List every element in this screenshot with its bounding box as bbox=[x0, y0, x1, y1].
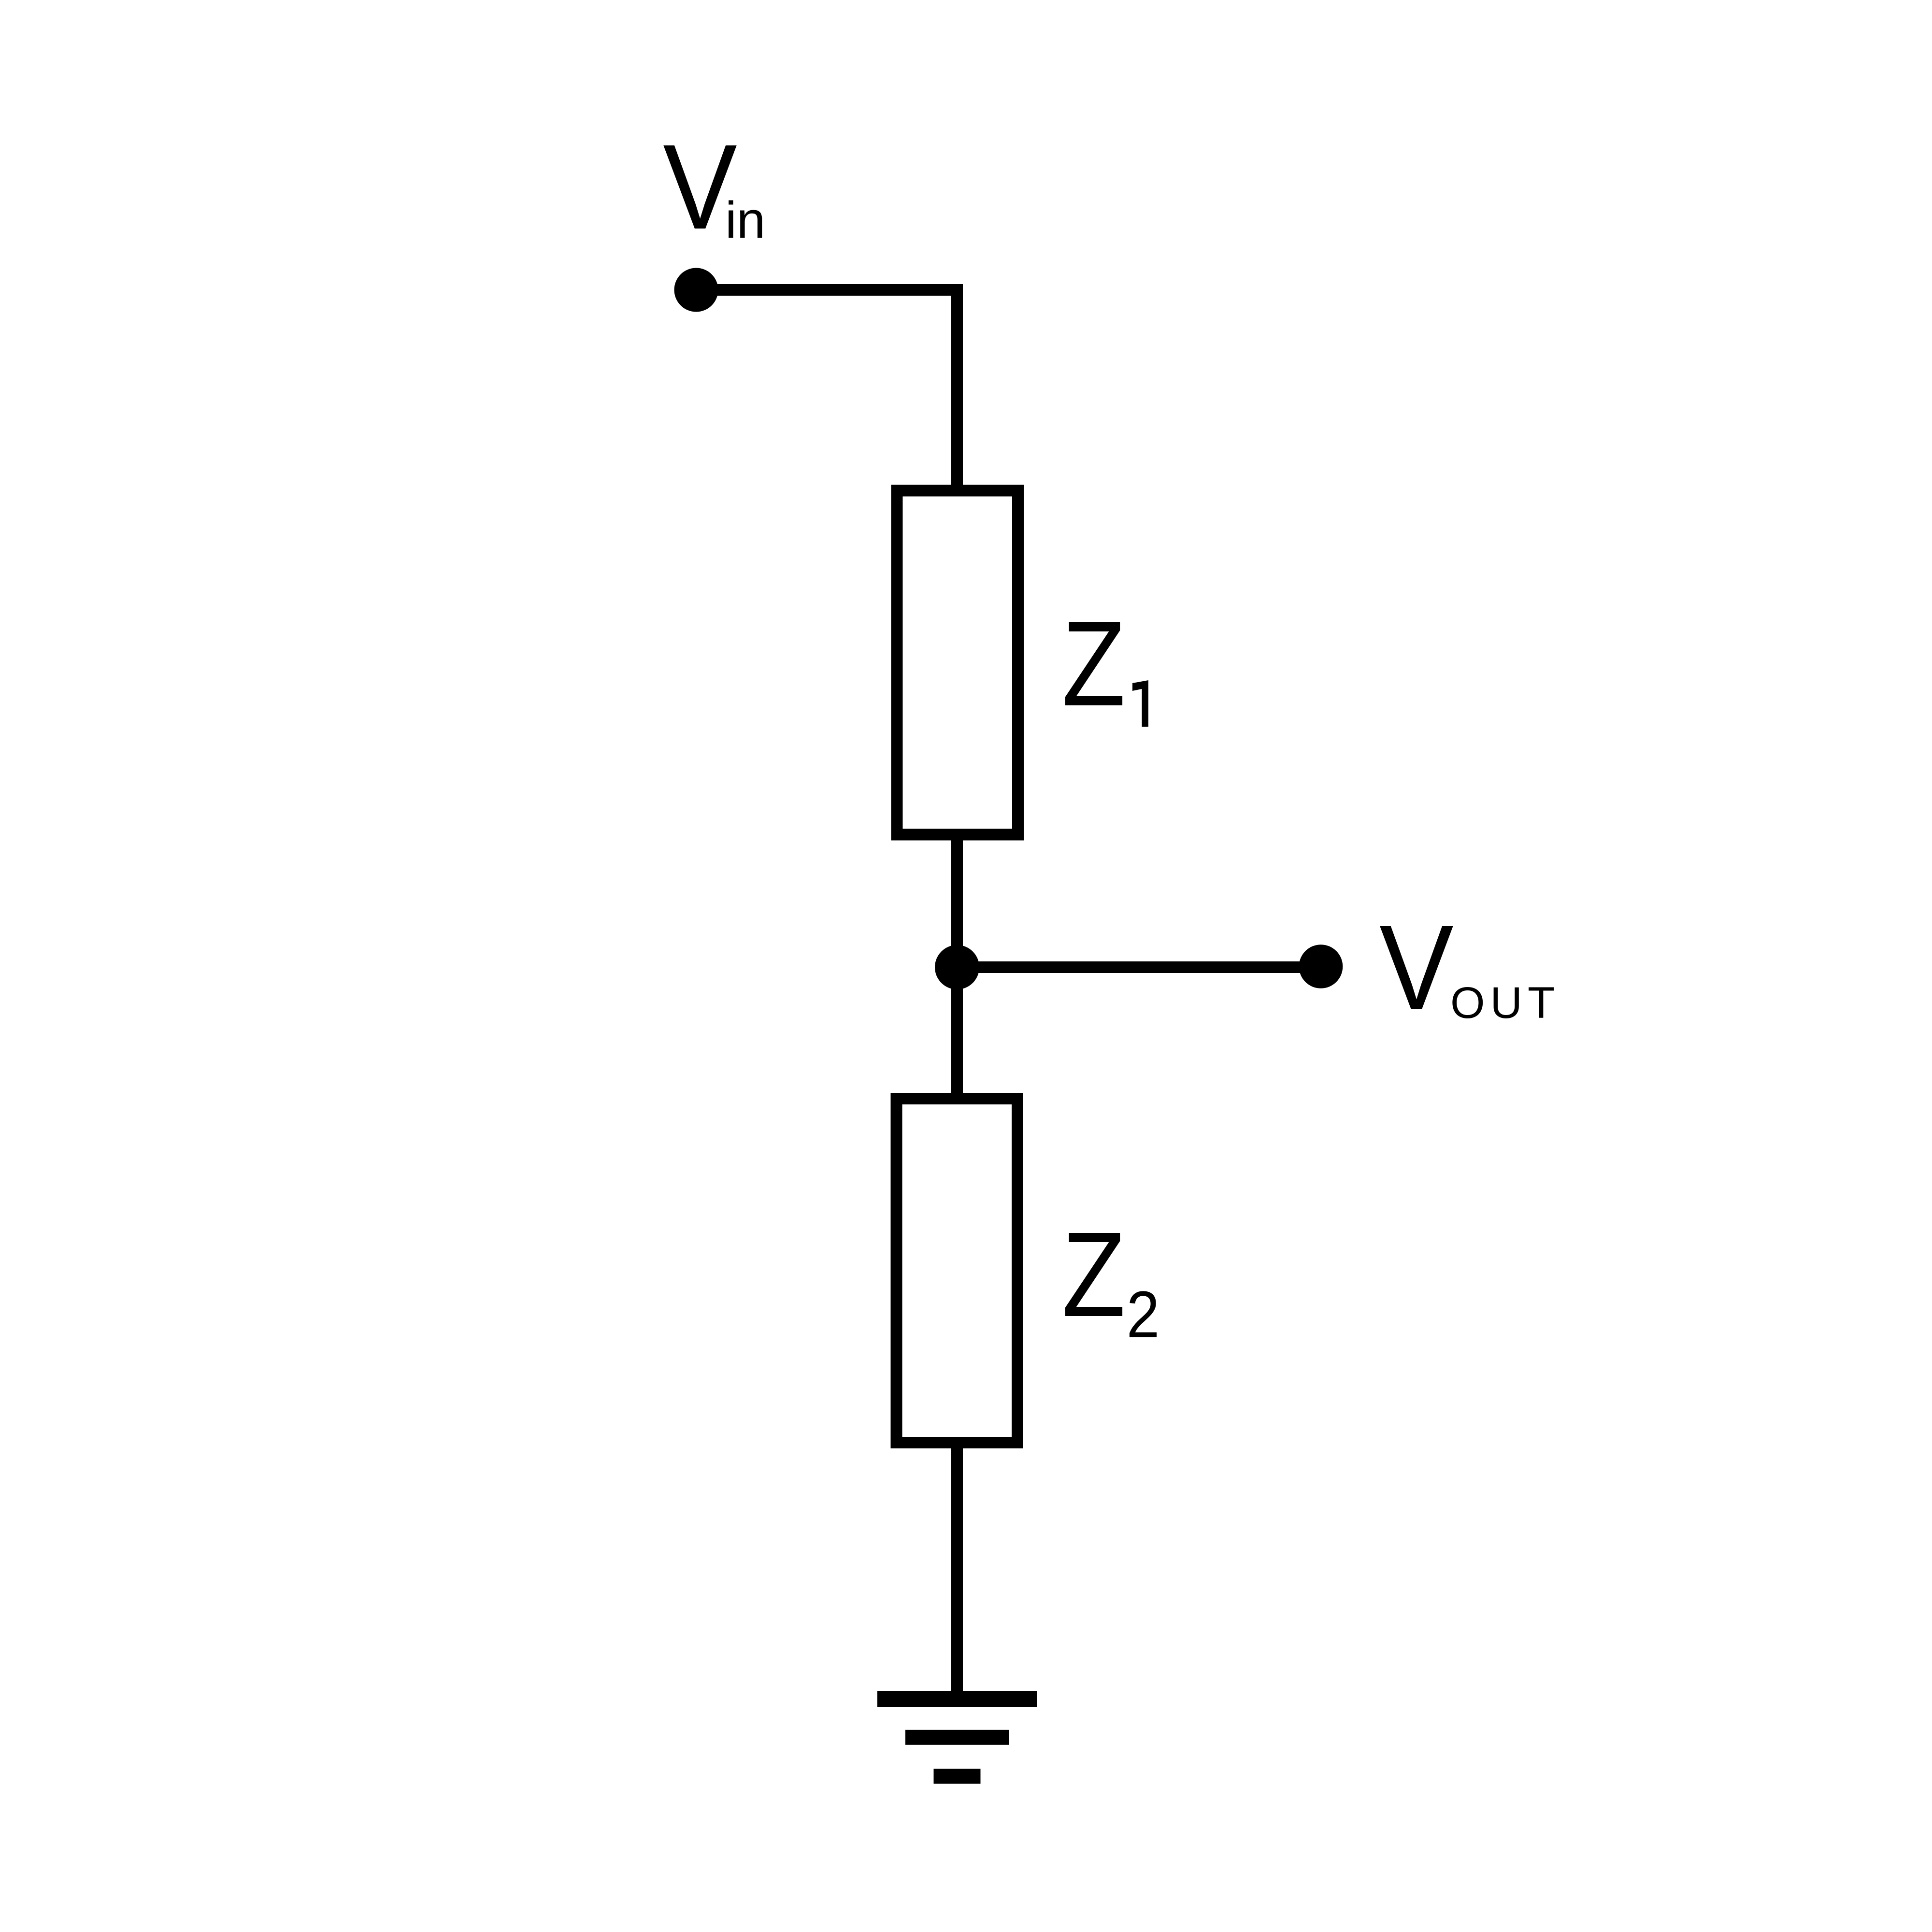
svg-text:Z: Z bbox=[1062, 597, 1126, 731]
wire Vin horizontal bbox=[696, 284, 963, 296]
wire Z2 to ground bbox=[951, 1443, 963, 1691]
label Z2 bbox=[1062, 1207, 1159, 1351]
wire Vin vertical down to Z1 bbox=[951, 290, 963, 485]
node Vin terminal dot bbox=[674, 268, 718, 312]
label Vout bbox=[1379, 900, 1560, 1035]
node junction dot bbox=[935, 945, 979, 989]
node Vout terminal dot bbox=[1299, 945, 1343, 988]
impedance Z1 (box) bbox=[897, 491, 1018, 835]
label Z1 bbox=[1062, 597, 1148, 731]
wire Z1 to Z2 vertical bbox=[951, 834, 963, 1093]
ground bar 1 bbox=[877, 1691, 1037, 1707]
impedance Z2 (box) bbox=[897, 1099, 1018, 1443]
svg-text:Z: Z bbox=[1062, 1207, 1126, 1342]
svg-text:OUT: OUT bbox=[1450, 978, 1560, 1028]
ground bar 3 bbox=[934, 1769, 981, 1784]
label Vin bbox=[663, 119, 765, 254]
ground bar 2 bbox=[905, 1730, 1009, 1745]
svg-text:in: in bbox=[725, 191, 765, 249]
svg-text:2: 2 bbox=[1127, 1277, 1160, 1351]
svg-text:V: V bbox=[1379, 900, 1453, 1035]
wire Vout horizontal bbox=[957, 961, 1321, 973]
